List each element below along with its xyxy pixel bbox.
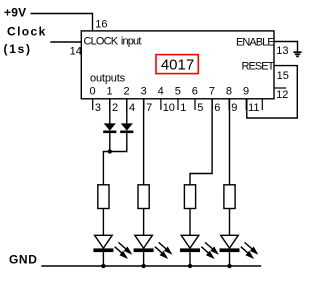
svg-text:5: 5 [175, 86, 181, 98]
bottom pin numbers [95, 102, 260, 114]
diode D1 (output 1) [103, 123, 116, 133]
junction dot LED2 on rail [141, 264, 145, 268]
svg-text:1: 1 [107, 86, 113, 98]
svg-text:11: 11 [248, 102, 259, 114]
wire LED1 to rail [102, 252, 104, 266]
pin 12 tick [274, 87, 286, 89]
svg-text:12: 12 [276, 89, 288, 101]
diode D2 (output 2) [120, 123, 133, 133]
wire clock to pin 14 [50, 41, 81, 43]
svg-text:ENABLE: ENABLE [236, 37, 274, 49]
ground symbol [293, 52, 301, 56]
junction dot LED1 on rail [101, 264, 105, 268]
IC U1 4017 decade counter body [81, 31, 274, 99]
svg-text:14: 14 [70, 46, 82, 58]
svg-text:1: 1 [180, 102, 186, 114]
junction dot LED4 on rail [227, 264, 231, 268]
svg-text:Clock: Clock [7, 25, 47, 39]
svg-text:outputs: outputs [90, 73, 126, 85]
svg-text:10: 10 [163, 102, 175, 114]
wire R2 to LED2 [143, 209, 145, 249]
bottom pin ticks [93, 99, 263, 110]
resistor R4 [224, 185, 235, 209]
svg-text:(1s): (1s) [4, 42, 32, 56]
svg-text:8: 8 [226, 86, 232, 98]
svg-text:CLOCK input: CLOCK input [84, 35, 142, 47]
svg-text:6: 6 [214, 102, 220, 114]
wire pin 15 to pin 11 (reset from output 9) [247, 66, 297, 118]
wire R3 to LED3 [189, 209, 191, 249]
junction dot LED3 on rail [188, 264, 192, 268]
svg-text:0: 0 [89, 86, 95, 98]
svg-text:9: 9 [231, 102, 237, 114]
wire D1 to junction [109, 133, 111, 151]
wire LED4 to rail [229, 252, 231, 266]
svg-text:3: 3 [141, 86, 147, 98]
wire LED3 to rail [189, 252, 191, 266]
svg-text:7: 7 [146, 102, 152, 114]
svg-text:7: 7 [209, 86, 215, 98]
wire pin 4 to diode D2 [126, 99, 128, 124]
wire R1 to LED1 [102, 209, 104, 249]
wire pin 7 to resistor R2 [143, 99, 145, 185]
resistor R3 [184, 185, 195, 209]
LED2 [134, 235, 173, 259]
output numbers 0-9 [89, 86, 249, 98]
svg-text:15: 15 [277, 70, 289, 82]
svg-text:3: 3 [95, 102, 101, 114]
svg-text:4: 4 [158, 86, 164, 98]
4017 part number red box [156, 55, 198, 74]
svg-text:GND: GND [9, 253, 37, 267]
wire LED2 to rail [143, 252, 145, 266]
svg-text:4017: 4017 [161, 56, 194, 73]
svg-text:16: 16 [95, 19, 107, 31]
junction dot diode bus [108, 149, 112, 153]
LED3 [180, 235, 219, 259]
wire pin 6 to resistor R3 [190, 99, 212, 185]
svg-text:13: 13 [276, 45, 288, 57]
wire D2 to bus and down to resistor R1 [103, 133, 126, 185]
ground rail wire [41, 265, 261, 267]
svg-text:6: 6 [192, 86, 198, 98]
LED4 [220, 235, 259, 259]
clock source label [4, 25, 47, 56]
resistor R1 [98, 185, 109, 209]
LED1 [93, 235, 132, 259]
wire pin 13 to ground [274, 42, 298, 53]
wire R4 to LED4 [229, 209, 231, 249]
wire pin 9 to resistor R4 [229, 99, 231, 185]
svg-text:4: 4 [129, 102, 135, 114]
svg-text:2: 2 [112, 102, 118, 114]
svg-text:RESET: RESET [241, 61, 274, 73]
svg-text:5: 5 [197, 102, 203, 114]
svg-text:9: 9 [243, 86, 249, 98]
wire +9V to pin 16 [31, 14, 93, 31]
resistor R2 [138, 185, 149, 209]
svg-text:+9V: +9V [4, 6, 26, 20]
svg-text:2: 2 [124, 86, 130, 98]
wire pin 2 to diode D1 [109, 99, 111, 124]
